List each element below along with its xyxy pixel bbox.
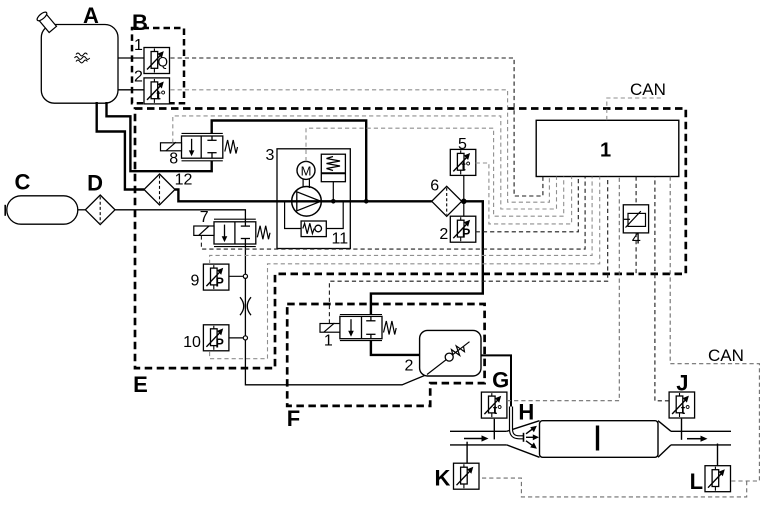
filter 6 (432, 186, 462, 216)
solenoid valve 7 body (214, 219, 256, 246)
catalytic converter I (540, 421, 659, 458)
svg-text:B: B (132, 10, 148, 35)
svg-text:11: 11 (331, 231, 348, 248)
svg-text:7: 7 (200, 209, 209, 226)
wire tank to sensor B1 (118, 57, 144, 59)
control valve 7 from ECU (201, 177, 585, 250)
svg-text:1: 1 (324, 333, 333, 350)
solenoid valve 8 body (182, 133, 223, 160)
svg-text:P: P (216, 276, 224, 290)
inlet cone (507, 421, 540, 432)
CAN bus to sensors K and L (670, 177, 759, 481)
svg-text:M: M (301, 163, 312, 178)
svg-text:G: G (492, 368, 509, 393)
sensor 9 tap (229, 275, 246, 277)
junction filter 6 outlet (461, 199, 467, 205)
svg-text:P: P (462, 227, 470, 241)
tank A body (41, 25, 118, 104)
pump unit box 3 (277, 149, 350, 249)
injector feed line (481, 355, 511, 406)
svg-text:2: 2 (134, 69, 143, 86)
svg-text:3: 3 (266, 147, 275, 164)
temperature sensor J (681, 419, 683, 440)
tank A fluid wave symbol (76, 53, 87, 56)
pressure sensor 10 (203, 325, 229, 351)
svg-text:2: 2 (405, 358, 414, 375)
temperature sensor B2 (144, 78, 170, 104)
pressure sensor 9 (203, 264, 229, 290)
svg-text:1: 1 (134, 37, 143, 54)
tank A filler neck (36, 11, 58, 34)
svg-text:8: 8 (169, 151, 178, 168)
svg-text:t°: t° (157, 89, 166, 103)
signal temperature sensor 5 to ECU (476, 163, 572, 224)
dashed enclosure E + control unit area (bold dashed polygon) (135, 109, 686, 369)
signal temperature sensor J to ECU (655, 177, 669, 401)
exhaust pipe downstream (671, 430, 731, 432)
svg-text:12: 12 (175, 171, 193, 188)
signal pressure sensor 10 to ECU (210, 177, 600, 359)
signal temperature sensor G to ECU (507, 177, 619, 401)
NOx sensor K (466, 442, 468, 464)
air reservoir C (7, 196, 78, 224)
temperature sensor G (493, 419, 495, 440)
sensor 2 tap (463, 201, 465, 216)
pressure line from filter 6 down to dosing valve (371, 201, 483, 314)
junction damper (331, 199, 336, 204)
filter 12 (144, 174, 175, 205)
svg-text:CAN: CAN (630, 80, 666, 99)
pump (292, 187, 322, 217)
pulsation damper (321, 154, 345, 182)
svg-text:6: 6 (430, 178, 439, 195)
suction line tank to filter 12 (97, 102, 144, 190)
svg-text:Q: Q (158, 54, 169, 69)
svg-text:t°: t° (462, 160, 471, 174)
spray arrows H (526, 429, 534, 446)
svg-text:K: K (434, 466, 450, 491)
svg-text:D: D (87, 170, 103, 195)
svg-text:t°: t° (681, 403, 690, 417)
doser unit 2 (420, 330, 481, 376)
svg-text:H: H (518, 399, 534, 424)
signal pressure sensor 9 to ECU (210, 177, 592, 264)
pressure sensor 2 (450, 216, 476, 242)
air filter D (85, 195, 115, 225)
motor shaft (302, 179, 304, 187)
CAN bus top (607, 98, 663, 120)
svg-text:J: J (676, 371, 688, 396)
sensor 5 tap (463, 176, 465, 201)
valve 7 return spring (257, 226, 270, 240)
motor M (297, 161, 315, 179)
level sensor B1 (144, 48, 170, 74)
NOx sensor L (717, 444, 719, 466)
sensor 10 tap (229, 337, 246, 339)
svg-text:CAN: CAN (708, 346, 744, 365)
line dosing valve 1 to doser 2 (371, 341, 420, 355)
main suction/pressure line to filter 6 (175, 190, 432, 202)
svg-text:2: 2 (439, 226, 448, 243)
relay 4 (623, 205, 648, 233)
svg-text:L: L (690, 469, 703, 494)
svg-text:C: C (14, 170, 30, 195)
svg-text:5: 5 (458, 136, 467, 153)
wire C to D (78, 209, 86, 211)
svg-text:A: A (83, 3, 99, 28)
svg-text:E: E (133, 372, 148, 397)
valve 8 solenoid (161, 143, 182, 151)
dashed box B (tank sensors) (132, 28, 184, 103)
valve 7 solenoid (194, 226, 214, 235)
valve 8 return spring (225, 140, 238, 154)
flow arrow upstream (464, 438, 482, 440)
svg-text:t°: t° (493, 403, 502, 417)
junction purge line (364, 199, 369, 204)
injector tube into exhaust (511, 407, 524, 438)
signal pressure sensor 2 to ECU (476, 177, 579, 232)
svg-text:P: P (216, 337, 224, 351)
svg-text:F: F (287, 406, 300, 431)
dosing valve 1 body (340, 315, 382, 341)
wiring relay 4 (635, 177, 637, 205)
dosing valve 1 solenoid (320, 324, 340, 333)
svg-text:10: 10 (183, 334, 201, 351)
outlet cone (658, 421, 671, 432)
temperature sensor 5 (450, 149, 476, 175)
purge line valve 8 to pressure line (212, 121, 367, 202)
dashed box F (dosing unit, notched polygon) (287, 304, 484, 406)
relief valve 11 (285, 201, 302, 228)
signal temperature sensor B2 to ECU (170, 90, 549, 202)
control dosing valve 1 from ECU (329, 177, 607, 324)
orifice (240, 297, 244, 315)
control unit 1 (536, 120, 679, 176)
flow arrow downstream (687, 438, 701, 440)
svg-text:9: 9 (191, 273, 200, 290)
return line tank to valve 8 (107, 102, 212, 171)
dosing valve 1 spring (384, 321, 397, 335)
signal level sensor B1 to ECU (170, 58, 543, 196)
control valve 8 from ECU (173, 116, 557, 209)
air line from D through valve 7 down to doser (115, 210, 427, 385)
control motor M from ECU (306, 128, 564, 216)
svg-text:1: 1 (600, 140, 611, 162)
exhaust pipe upstream (450, 430, 507, 432)
svg-text:I: I (592, 418, 602, 459)
wire tank to sensor B2 (118, 89, 144, 91)
